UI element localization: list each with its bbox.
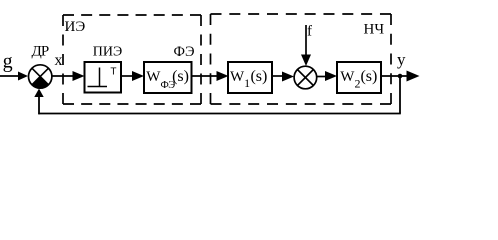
arrowhead into W1 [217, 71, 229, 81]
wire f input [305, 25, 307, 56]
svg-text:g: g [3, 51, 13, 73]
dashed box NCh [211, 14, 392, 104]
node junction dot [398, 74, 403, 79]
wire summator 2 to W2 [317, 76, 328, 78]
wire input g [0, 75, 19, 77]
arrowhead feedback into DR [34, 89, 43, 97]
summing junction 2 (circle with cross) [294, 66, 317, 89]
svg-text:y: y [397, 50, 406, 69]
wire feedback: down from junction [399, 76, 401, 114]
block W1 [228, 62, 272, 93]
svg-text:НЧ: НЧ [364, 22, 385, 38]
output arrowhead [407, 71, 420, 82]
wire feedback: bottom run [38, 113, 401, 115]
pulse symbol inside PIE [88, 68, 108, 87]
arrowhead into PIE [73, 71, 85, 81]
summing junction DR (circle with cross, bottom sector filled) [29, 65, 52, 88]
arrowhead into W2 [325, 71, 337, 81]
wire feedback: up into DR [38, 95, 40, 114]
arrowhead f into summator 2 [301, 55, 311, 67]
wire W1 to summator 2 [272, 75, 285, 77]
svg-text:ФЭ: ФЭ [174, 44, 195, 60]
arrowhead into summator DR [18, 72, 28, 81]
wire PIE to FE [121, 75, 135, 77]
wire DR to PIE [52, 75, 75, 77]
block FE W_fe(s) [144, 62, 192, 93]
wire W2 to output [381, 75, 410, 77]
svg-text:T: T [110, 67, 116, 78]
svg-text:f: f [307, 24, 312, 40]
svg-text:ИЭ: ИЭ [65, 19, 86, 35]
block PIE (pulse element) [85, 62, 122, 93]
block W2 [337, 62, 381, 93]
svg-text:ДР: ДР [32, 44, 49, 60]
wire FE to W1 [192, 75, 220, 77]
svg-text:x: x [55, 52, 63, 69]
arrowhead into FE [132, 71, 144, 81]
svg-text:ПИЭ: ПИЭ [93, 45, 122, 60]
dashed box IE [63, 15, 201, 104]
arrowhead into summator 2 [282, 72, 294, 82]
